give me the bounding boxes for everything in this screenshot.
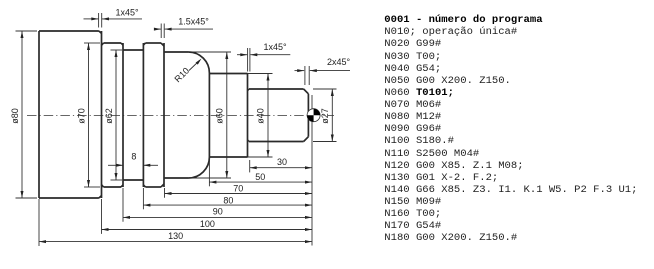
svg-text:130: 130 — [168, 231, 183, 241]
svg-text:80: 80 — [223, 196, 233, 206]
svg-text:R10: R10 — [173, 66, 192, 85]
svg-text:ø70: ø70 — [77, 108, 87, 124]
svg-text:90: 90 — [213, 207, 223, 217]
svg-text:1.5x45°: 1.5x45° — [178, 16, 209, 26]
svg-text:30: 30 — [277, 157, 287, 167]
svg-text:50: 50 — [255, 172, 265, 182]
svg-text:2x45°: 2x45° — [327, 57, 351, 67]
svg-text:1x45°: 1x45° — [263, 42, 287, 52]
svg-text:ø62: ø62 — [104, 108, 114, 124]
svg-text:ø40: ø40 — [256, 108, 266, 124]
svg-text:ø60: ø60 — [215, 108, 225, 124]
svg-text:100: 100 — [200, 219, 215, 229]
svg-text:70: 70 — [233, 184, 243, 194]
svg-text:ø27: ø27 — [320, 108, 330, 124]
svg-text:1x45°: 1x45° — [115, 7, 139, 17]
svg-text:ø80: ø80 — [10, 108, 20, 124]
svg-text:8: 8 — [131, 152, 136, 162]
